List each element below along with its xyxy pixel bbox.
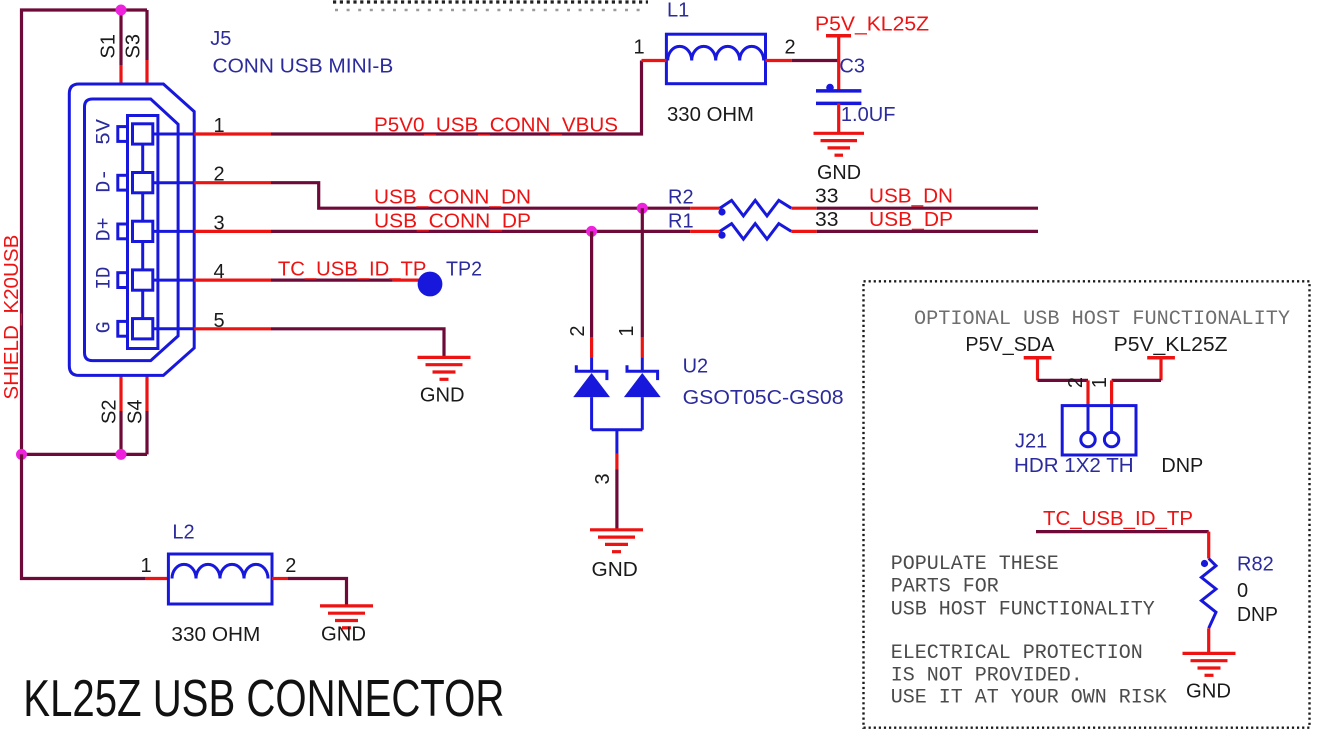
svg-text:P5V_KL25Z: P5V_KL25Z [815, 13, 929, 35]
connector pin column line [141, 134, 144, 329]
svg-text:5V: 5V [94, 119, 117, 145]
wire S3 vertical [145, 10, 148, 60]
resistor R2 [690, 200, 817, 216]
svg-text:U2: U2 [683, 356, 709, 378]
svg-text:DNP: DNP [1161, 455, 1203, 477]
svg-text:S1: S1 [98, 34, 120, 58]
svg-text:1: 1 [1089, 377, 1111, 388]
pin S2 [119, 375, 122, 411]
wire DN to U2 pin1 [641, 208, 644, 337]
svg-text:J21: J21 [1015, 431, 1047, 453]
pin U2-1 stub [641, 337, 644, 357]
svg-text:TP2: TP2 [446, 258, 482, 280]
svg-text:L1: L1 [667, 0, 689, 22]
svg-text:USB_CONN_DP: USB_CONN_DP [374, 210, 531, 232]
junction top [116, 5, 127, 16]
resistor R1 [690, 224, 817, 240]
resistor R82 [1201, 559, 1216, 629]
test point lead [393, 279, 424, 282]
pin S1 [119, 65, 122, 85]
wire DP to U2 pin2 [590, 231, 593, 337]
svg-text:S2: S2 [99, 400, 121, 424]
svg-text:R1: R1 [668, 210, 694, 232]
capacitor C3 [816, 84, 861, 104]
svg-text:USB HOST FUNCTIONALITY: USB HOST FUNCTIONALITY [891, 598, 1155, 621]
svg-text:2: 2 [285, 555, 296, 577]
svg-text:S4: S4 [125, 400, 147, 424]
svg-text:ELECTRICAL PROTECTION: ELECTRICAL PROTECTION [891, 642, 1143, 665]
pin 3 stub [194, 230, 271, 233]
ground R82 [1183, 653, 1236, 675]
wire USB_CONN_DP [271, 230, 690, 233]
pin L2-1 stub [145, 577, 168, 580]
svg-text:PARTS FOR: PARTS FOR [891, 576, 999, 599]
svg-text:CONN USB MINI-B: CONN USB MINI-B [213, 56, 394, 78]
svg-text:GND: GND [1186, 681, 1231, 703]
inductor L1 [666, 34, 765, 83]
svg-text:P5V_KL25Z: P5V_KL25Z [1114, 334, 1228, 356]
svg-text:TC_USB_ID_TP: TC_USB_ID_TP [278, 258, 427, 280]
power symbol P5V_SDA [1024, 358, 1052, 381]
connector J5 outer shell [69, 84, 194, 375]
svg-text:33: 33 [815, 209, 839, 231]
wire USB_DP [817, 230, 1038, 233]
pin J21-2 stub [1086, 380, 1089, 405]
wire shield to L2 [22, 454, 146, 578]
svg-text:USB_CONN_DN: USB_CONN_DN [374, 187, 531, 209]
svg-text:GSOT05C-GS08: GSOT05C-GS08 [683, 387, 844, 409]
pin 4 stub [194, 279, 271, 282]
contact 5V [118, 124, 194, 144]
connector J5 tongue [128, 116, 158, 349]
header J21 [1062, 406, 1136, 455]
svg-text:IS NOT PROVIDED.: IS NOT PROVIDED. [891, 665, 1083, 688]
dashed option box [864, 281, 1310, 727]
pin J21-1 stub [1110, 380, 1113, 405]
connector J5 inner shell [85, 99, 179, 361]
svg-text:HDR 1X2 TH: HDR 1X2 TH [1014, 455, 1134, 477]
test point TP2 [418, 272, 443, 297]
wire TC_USB_ID_TP [271, 279, 393, 282]
contact G [118, 319, 194, 339]
wire USB_CONN_DN [271, 183, 690, 209]
svg-text:USB_DP: USB_DP [869, 209, 953, 231]
svg-text:L2: L2 [172, 522, 194, 544]
pin S3 [145, 60, 148, 85]
pin R82 bottom stub [1207, 628, 1210, 653]
wire USB_DN [817, 207, 1038, 210]
wire shield top loop [22, 10, 148, 454]
wire S2 vertical [119, 411, 122, 454]
svg-text:1: 1 [140, 555, 151, 577]
wire TC_USB_ID_TP box [1036, 530, 1209, 533]
svg-text:2: 2 [1065, 377, 1087, 388]
svg-text:G: G [94, 321, 117, 333]
svg-text:R82: R82 [1237, 554, 1274, 576]
power symbol P5V_KL25Z right [1147, 358, 1175, 381]
diode U2 right [624, 357, 661, 429]
junction bottom left [16, 449, 27, 460]
svg-text:S3: S3 [123, 34, 145, 58]
pin 5 stub [194, 327, 271, 330]
junction DP [586, 226, 597, 237]
svg-text:OPTIONAL USB HOST FUNCTIONALIT: OPTIONAL USB HOST FUNCTIONALITY [914, 308, 1290, 331]
ground C3 [814, 133, 865, 155]
svg-text:USE IT AT YOUR OWN RISK: USE IT AT YOUR OWN RISK [891, 687, 1167, 710]
svg-text:DNP: DNP [1237, 604, 1278, 626]
wire bottom shield horizontal [22, 453, 148, 456]
pin L1-2 stub [766, 59, 792, 62]
pin C3 bottom [837, 103, 840, 133]
contact D+ [118, 221, 194, 241]
pin U2-3 stub [615, 454, 618, 470]
inductor L2 [168, 554, 272, 604]
wire L2-2 to gnd [288, 579, 347, 605]
wire KL25Z to J21-1 [1112, 379, 1161, 382]
top cut-off dotted border line [333, 2, 648, 10]
svg-text:2: 2 [784, 37, 795, 59]
svg-text:D-: D- [94, 169, 117, 193]
pin U2-2 stub [590, 337, 593, 357]
U2 bottom join [592, 430, 643, 454]
svg-text:R2: R2 [668, 187, 694, 209]
wire S1 vertical [119, 10, 122, 65]
wire VBUS [271, 61, 642, 135]
svg-text:1: 1 [633, 37, 644, 59]
svg-text:SHIELD_K20USB: SHIELD_K20USB [1, 235, 23, 400]
svg-text:GND: GND [592, 559, 638, 581]
svg-text:GND: GND [420, 385, 465, 407]
svg-text:GND: GND [321, 624, 366, 646]
svg-text:P5V_SDA: P5V_SDA [965, 334, 1055, 356]
ground L2 [320, 606, 373, 628]
svg-text:D+: D+ [94, 217, 117, 241]
ground pin5 [418, 357, 471, 379]
svg-text:C3: C3 [839, 56, 865, 78]
svg-text:330 OHM: 330 OHM [667, 104, 754, 126]
contact D- [118, 173, 194, 193]
pin L2-2 stub [272, 577, 288, 580]
svg-text:0: 0 [1237, 580, 1248, 602]
svg-text:1: 1 [616, 325, 638, 336]
pin L1-1 stub [642, 59, 667, 62]
junction bottom S2 [116, 449, 127, 460]
svg-text:KL25Z USB CONNECTOR: KL25Z USB CONNECTOR [23, 670, 504, 728]
svg-text:33: 33 [815, 185, 839, 207]
pin 2 stub [194, 181, 271, 184]
svg-text:POPULATE THESE: POPULATE THESE [891, 553, 1059, 576]
svg-text:USB_DN: USB_DN [869, 185, 953, 207]
svg-text:3: 3 [592, 473, 614, 484]
wire U2-3 to gnd [615, 470, 618, 529]
ground U2 [590, 530, 643, 552]
contact ID [118, 270, 194, 290]
wire L1-2 to power [792, 59, 839, 62]
wire SDA to J21-2 [1038, 379, 1089, 382]
pin 1 stub [194, 132, 271, 135]
svg-text:ID: ID [94, 267, 117, 290]
power symbol P5V_KL25Z [826, 36, 851, 91]
diode U2 left [573, 357, 610, 429]
junction DN [637, 203, 648, 214]
svg-text:P5V0_USB_CONN_VBUS: P5V0_USB_CONN_VBUS [374, 115, 618, 137]
wire S4 vertical [145, 411, 148, 454]
svg-text:GND: GND [817, 162, 861, 184]
svg-text:1.0UF: 1.0UF [841, 104, 896, 126]
pin R82 top stub [1207, 532, 1210, 559]
svg-text:J5: J5 [210, 28, 231, 50]
svg-text:2: 2 [567, 325, 589, 336]
wire pin5 to gnd [271, 329, 444, 356]
pin S4 [145, 375, 148, 411]
svg-text:TC_USB_ID_TP: TC_USB_ID_TP [1043, 508, 1193, 530]
svg-text:330 OHM: 330 OHM [171, 624, 260, 646]
